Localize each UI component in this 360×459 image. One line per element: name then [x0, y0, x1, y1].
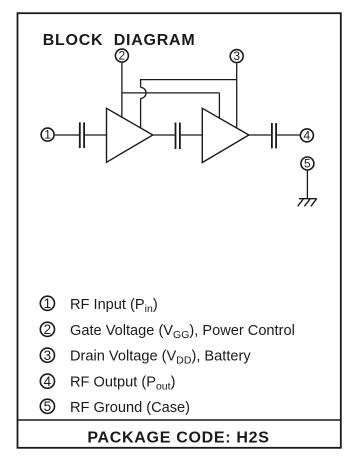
- svg-text:4: 4: [44, 374, 52, 389]
- legend pin 1: RF Input: [40, 296, 157, 315]
- separator line above package code: [18, 419, 341, 421]
- wire: VGG branch to A2 gate: [122, 92, 219, 94]
- capacitor C1 (input coupling): [80, 122, 84, 148]
- legend pin 5: RF Ground: [40, 399, 190, 416]
- wire: A1 output to C2: [153, 134, 175, 136]
- svg-text:3: 3: [44, 348, 52, 363]
- package code label: [87, 430, 269, 447]
- svg-text:BLOCK DIAGRAM: BLOCK DIAGRAM: [43, 32, 196, 49]
- title BLOCK DIAGRAM: [43, 32, 196, 49]
- wire: C3 to node 4: [277, 134, 300, 136]
- node 2 (gate voltage pin): [115, 49, 128, 63]
- wire: VDD branch to A1 drain (top horizontal): [141, 79, 237, 81]
- wire: node 3 down to A2 drain: [236, 63, 238, 128]
- svg-text:Drain Voltage (VDD), Battery: Drain Voltage (VDD), Battery: [70, 349, 251, 367]
- node 5 (RF ground pin): [301, 156, 314, 170]
- svg-text:3: 3: [233, 49, 240, 63]
- legend pin 3: Drain Voltage: [40, 348, 251, 367]
- capacitor C2 (interstage coupling): [176, 123, 180, 150]
- svg-text:5: 5: [44, 399, 52, 414]
- wire: node 1 to C1: [55, 134, 79, 136]
- legend pin 2: Gate Voltage: [40, 322, 295, 341]
- svg-text:RF Input (Pin): RF Input (Pin): [70, 297, 158, 315]
- svg-text:PACKAGE CODE: H2S: PACKAGE CODE: H2S: [87, 430, 269, 447]
- svg-text:RF Ground (Case): RF Ground (Case): [70, 400, 190, 416]
- wire: node 5 down to ground: [306, 171, 308, 199]
- amplifier A2 (second stage): [202, 108, 249, 162]
- svg-text:2: 2: [119, 49, 126, 63]
- wire: C1 to amplifier A1 input: [85, 134, 107, 136]
- capacitor C3 (output coupling): [272, 123, 276, 148]
- amplifier A1 (first stage): [107, 108, 153, 162]
- wire: C2 to amplifier A2 input: [181, 134, 203, 136]
- svg-text:2: 2: [44, 322, 52, 337]
- node 3 (drain voltage pin): [230, 49, 243, 63]
- wire: A2 output to C3: [249, 134, 271, 136]
- wire: VDD branch down into A1 with hop over VGG wire: [141, 79, 146, 128]
- legend pin 4: RF Output: [40, 374, 175, 393]
- wire: node 2 down to A1 gate: [121, 63, 123, 118]
- svg-text:5: 5: [304, 156, 311, 170]
- svg-text:1: 1: [44, 296, 52, 311]
- node 1 (RF input pin): [41, 128, 54, 142]
- svg-text:4: 4: [304, 128, 311, 142]
- ground (chassis): [298, 199, 317, 207]
- svg-text:1: 1: [44, 128, 51, 142]
- node 4 (RF output pin): [300, 128, 313, 142]
- wire: VGG branch down into A2: [218, 93, 220, 118]
